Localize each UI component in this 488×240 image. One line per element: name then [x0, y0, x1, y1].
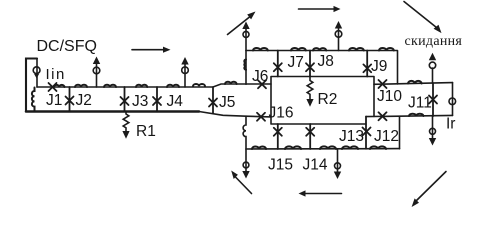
junction J16 — [257, 113, 265, 121]
svg-text:J15: J15 — [268, 157, 293, 174]
current source Iin — [33, 67, 40, 79]
inductor lower bumps e — [370, 146, 386, 149]
arrow diagonal reset input — [404, 2, 442, 34]
arrow diagonal bottom-left — [231, 171, 251, 194]
wire FF right vertical — [397, 51, 399, 84]
inductor upper bumps a — [253, 48, 268, 51]
svg-text:J2: J2 — [76, 92, 92, 109]
wire Iin source branch — [36, 59, 38, 88]
inductor L3 bumps — [104, 85, 116, 87]
bias source 1 — [93, 57, 100, 88]
wire JTL ground rail — [26, 110, 199, 113]
svg-text:скидання: скидання — [405, 34, 463, 49]
arrow bottom-middle flow — [299, 190, 342, 196]
junction J7 — [274, 51, 282, 77]
arrow top-left flow — [132, 47, 171, 53]
svg-text:J16: J16 — [269, 105, 294, 122]
inductor L4 bumps — [136, 85, 147, 87]
junction J3 — [121, 87, 129, 112]
resistor R1 — [122, 112, 129, 139]
inductor L6 bumps — [193, 84, 205, 86]
wire ground step — [199, 112, 271, 117]
junction J10 — [379, 80, 387, 88]
junction J1 — [49, 83, 57, 91]
junction J11 — [429, 83, 437, 116]
bias source C — [429, 116, 436, 145]
svg-text:J5: J5 — [219, 94, 235, 111]
resistor R2 — [306, 77, 313, 107]
junction J2 — [66, 87, 74, 112]
wire lower-mid rail — [366, 115, 453, 116]
svg-text:J1: J1 — [46, 92, 62, 109]
inductor mid bumps — [408, 81, 422, 84]
inductor L1 bumps — [54, 85, 64, 87]
svg-text:Ir: Ir — [446, 116, 455, 133]
bias source F — [429, 53, 436, 83]
svg-text:DC/SFQ: DC/SFQ — [37, 38, 97, 55]
bias source A — [242, 22, 249, 51]
current source output — [449, 98, 456, 105]
inductor lower bumps b — [285, 146, 301, 149]
wire FF left vertical — [245, 51, 247, 85]
junction J9 — [363, 51, 371, 77]
svg-text:J9: J9 — [371, 58, 387, 75]
wire mid rail — [374, 83, 453, 85]
junction J15 — [274, 124, 282, 149]
arrow diagonal set input — [228, 12, 256, 35]
inductor small squiggle — [244, 60, 246, 70]
wire FF lower-left coil — [243, 116, 246, 149]
svg-text:R2: R2 — [318, 91, 338, 108]
inductor input coil — [32, 88, 35, 112]
svg-text:J13: J13 — [339, 128, 364, 145]
svg-text:R1: R1 — [136, 123, 156, 140]
svg-text:J8: J8 — [318, 53, 334, 70]
bias source D — [242, 149, 249, 179]
inductor L5 bumps — [167, 85, 179, 87]
svg-text:J7: J7 — [288, 54, 304, 71]
junction J14 — [306, 124, 314, 149]
inductor upper bumps e — [379, 48, 394, 51]
junction J8 — [306, 51, 314, 77]
inductor lower-mid bumps — [409, 114, 423, 116]
wire left input loop — [26, 59, 37, 112]
inductor L7 bumps — [225, 82, 237, 84]
junction J4 — [153, 87, 161, 112]
wire output right vertical — [452, 83, 454, 116]
bias source B — [335, 21, 342, 51]
svg-text:J14: J14 — [303, 157, 328, 174]
svg-text:Iin: Iin — [46, 66, 66, 83]
junction J12 — [379, 112, 387, 120]
bias source E — [334, 149, 341, 179]
inductor lower bumps d — [342, 146, 358, 149]
inductor lower bumps a — [252, 147, 266, 150]
junction J5 — [209, 87, 217, 114]
svg-text:J4: J4 — [167, 93, 184, 110]
inductor lower bumps c — [320, 146, 336, 149]
storage loop box — [271, 77, 374, 125]
wire FF lower rail — [246, 148, 400, 150]
junction J6 — [258, 80, 266, 88]
wire FF upper rail — [246, 50, 397, 52]
bias source 2 — [181, 57, 188, 87]
inductor upper bumps c — [313, 48, 326, 50]
arrow top-middle flow — [299, 6, 341, 12]
inductor upper bumps d — [349, 48, 364, 51]
svg-text:J6: J6 — [252, 68, 268, 85]
svg-text:J12: J12 — [374, 128, 399, 145]
svg-text:J3: J3 — [132, 93, 148, 110]
inductor L2 bumps — [75, 85, 87, 87]
arrow diagonal bottom-right — [412, 172, 446, 208]
wire right lower vertical — [399, 116, 401, 148]
junction J13 — [363, 117, 371, 149]
inductor upper bumps b — [291, 48, 306, 51]
svg-text:J10: J10 — [377, 88, 402, 105]
wire JTL top rail — [37, 84, 271, 87]
svg-text:J11: J11 — [408, 95, 432, 112]
